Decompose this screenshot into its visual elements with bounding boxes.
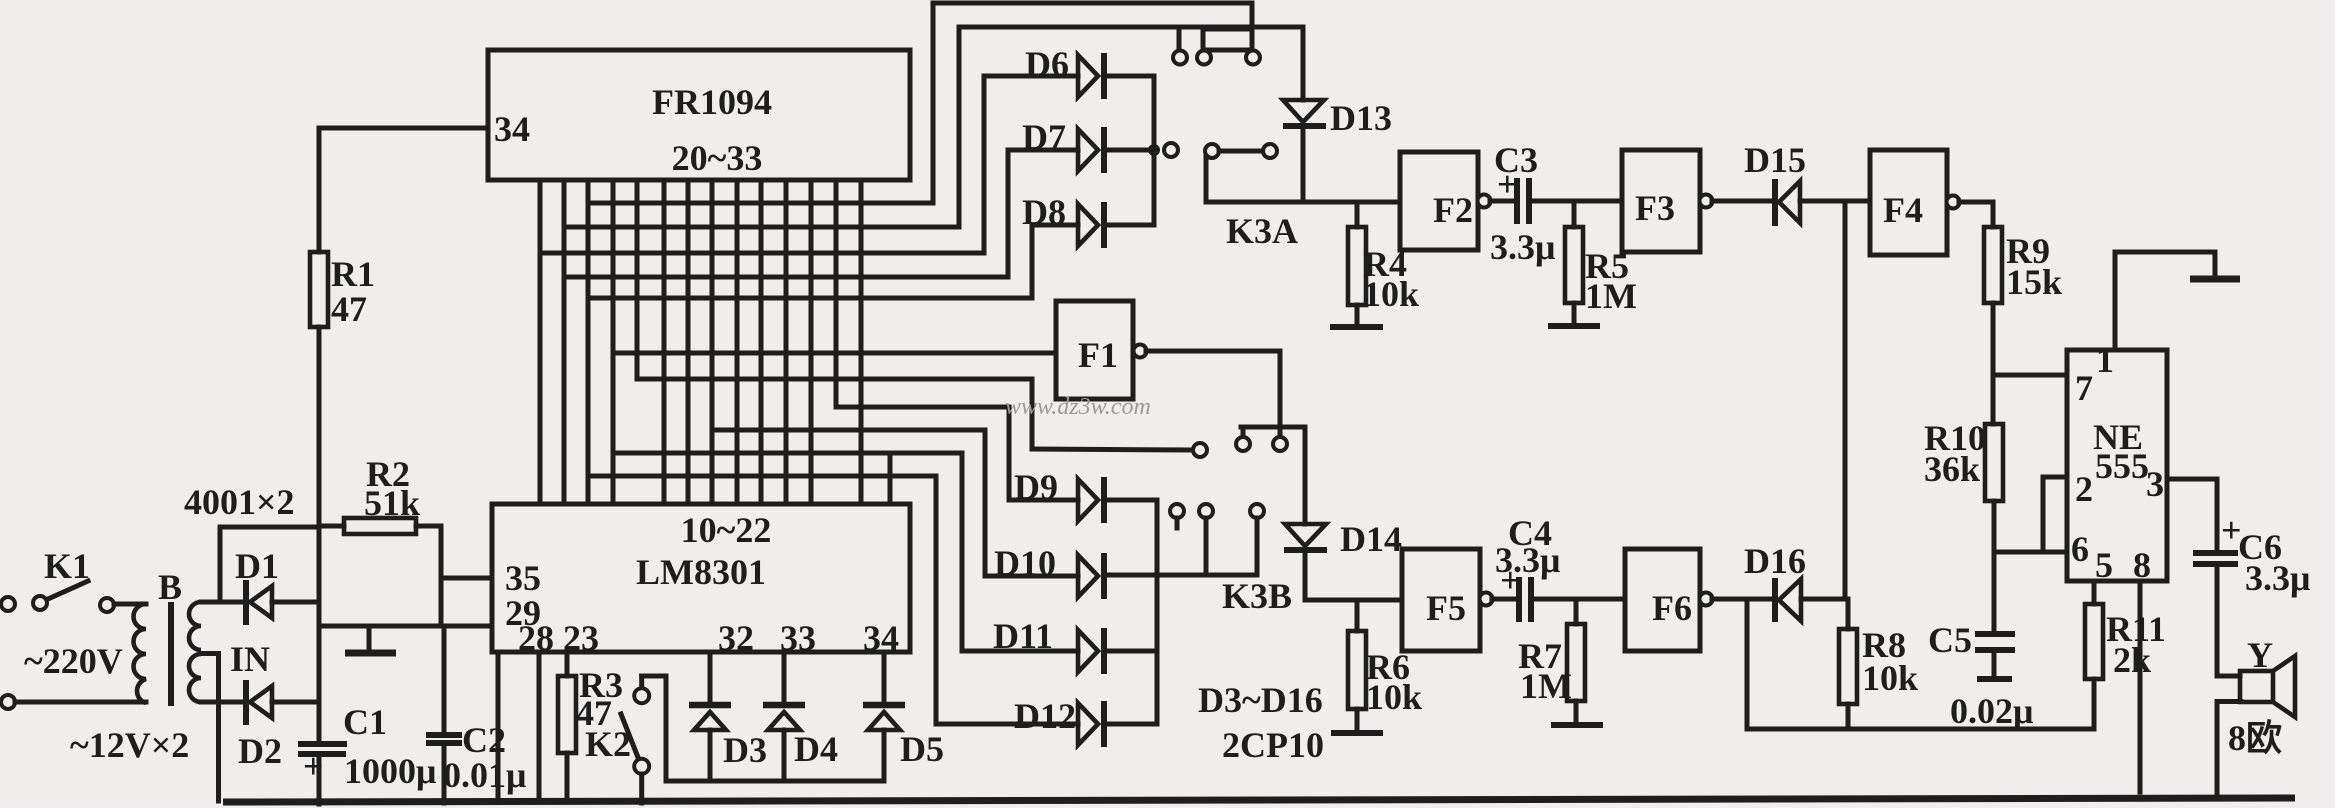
- wire bus row y353 to F1 input: [613, 351, 1056, 356]
- wire NE555 pin 1 up: [2115, 252, 2215, 350]
- svg-text:7: 7: [2075, 368, 2093, 408]
- wire bus column x540: [538, 180, 543, 504]
- svg-text:28: 28: [518, 618, 554, 658]
- capacitor C2: [426, 626, 526, 803]
- svg-text:3.3μ: 3.3μ: [2245, 558, 2310, 598]
- ground at pin 1 wire: [2190, 276, 2240, 283]
- svg-text:0.02μ: 0.02μ: [1950, 691, 2033, 731]
- svg-text:C3: C3: [1494, 140, 1538, 180]
- svg-text:F6: F6: [1652, 588, 1692, 628]
- wire bus column x564: [562, 180, 567, 504]
- wire bus row y227: [564, 225, 959, 230]
- diode D2: [238, 680, 319, 771]
- wire row y27 to D13: [959, 25, 1303, 30]
- ground at supply node: [345, 626, 396, 653]
- wire bottom row y729: [1747, 727, 2094, 732]
- wire secondary center tap IN: [201, 654, 219, 802]
- svg-text:D14: D14: [1340, 519, 1402, 559]
- wire C6 to speaker: [2217, 566, 2240, 676]
- diode D4: [763, 652, 838, 781]
- wire bus column x588: [586, 180, 591, 504]
- svg-text:20~33: 20~33: [672, 138, 763, 178]
- wire to LM8301 pin 29: [321, 624, 492, 629]
- svg-text:F3: F3: [1635, 188, 1675, 228]
- wire bus row y253: [540, 251, 984, 256]
- wire secondary top tap to D1: [201, 600, 246, 605]
- svg-text:D8: D8: [1022, 192, 1066, 232]
- svg-text:34: 34: [863, 618, 899, 658]
- wire K1 to transformer primary top: [114, 602, 146, 607]
- relay contact K3A upper: [1173, 3, 1303, 251]
- wire C3 to F3: [1529, 199, 1622, 204]
- wire R9 down to pin7 node: [1991, 303, 1996, 424]
- svg-text:1M: 1M: [1585, 276, 1637, 316]
- relay contact K3B upper bridge: [1236, 427, 1305, 451]
- wire K2 loop to diode rail: [642, 676, 666, 781]
- svg-text:D1: D1: [235, 546, 279, 586]
- svg-text:D3: D3: [723, 730, 767, 770]
- gate F2: [1400, 152, 1491, 250]
- wire secondary bottom tap to D2: [201, 700, 246, 705]
- svg-text:8欧: 8欧: [2228, 718, 2282, 758]
- svg-text:~12V×2: ~12V×2: [70, 725, 189, 765]
- svg-text:2k: 2k: [2113, 640, 2151, 680]
- IC U2 LM8301: [492, 504, 910, 658]
- svg-text:15k: 15k: [2006, 262, 2062, 302]
- node K3B pole contact: [1193, 443, 1207, 457]
- capacitor C4: [1495, 513, 1560, 622]
- transformer B secondary winding upper half: [189, 602, 201, 650]
- wire bus column x688: [686, 180, 691, 504]
- ground at C5: [1977, 676, 2012, 682]
- wire riser x1032 to D8: [1030, 225, 1035, 298]
- wire D10 anode row: [985, 574, 1078, 579]
- wire riser x959 up: [957, 27, 962, 227]
- gate F4: [1870, 150, 1960, 255]
- svg-text:D13: D13: [1330, 98, 1392, 138]
- diode D10: [994, 543, 1104, 599]
- diode D12: [1014, 696, 1157, 747]
- transformer B core: [168, 602, 174, 706]
- svg-text:10k: 10k: [1366, 677, 1422, 717]
- wire dropper x1001 to D9: [1007, 407, 1012, 500]
- junction dot at D7 cathode: [1148, 144, 1160, 156]
- wire bus column x613: [611, 180, 616, 504]
- wire bus row y203: [591, 201, 933, 206]
- svg-text:D2: D2: [238, 731, 282, 771]
- wire D16 node down: [1745, 599, 1750, 729]
- svg-text:0.01μ: 0.01μ: [443, 755, 526, 795]
- wire speaker bottom to rail: [2217, 702, 2241, 799]
- svg-text:10k: 10k: [1363, 274, 1419, 314]
- wire junction drop x1845: [1843, 201, 1848, 599]
- svg-text:4001×2: 4001×2: [184, 482, 295, 522]
- wire node to F2 input: [1206, 200, 1400, 205]
- wire D14 node to F5 input: [1305, 598, 1402, 603]
- capacitor C5: [1928, 620, 2033, 731]
- svg-text:LM8301: LM8301: [636, 552, 766, 592]
- transformer B primary winding: [133, 604, 146, 703]
- gate F6: [1625, 549, 1713, 651]
- ground at R5: [1548, 323, 1600, 329]
- wire F3 out to D15: [1712, 199, 1775, 204]
- diode D8: [1022, 192, 1154, 248]
- wire top row y3 to K3A: [933, 1, 1252, 6]
- svg-text:6: 6: [2071, 529, 2089, 569]
- wire dropper x936 to D11 D12: [960, 453, 965, 651]
- resistor R8: [1839, 599, 1918, 729]
- wire riser x1008 to D7: [1006, 150, 1011, 277]
- IC U3 NE555: [2067, 340, 2167, 585]
- svg-text:K3A: K3A: [1226, 211, 1298, 251]
- svg-text:K1: K1: [44, 546, 90, 586]
- svg-text:www.dz3w.com: www.dz3w.com: [1005, 394, 1151, 420]
- wire riser x984 to D6: [982, 76, 987, 253]
- svg-text:D6: D6: [1025, 44, 1069, 84]
- svg-text:K2: K2: [585, 724, 631, 764]
- resistor R7: [1518, 599, 1585, 722]
- wire bottom rail: [223, 798, 2295, 802]
- wire C4 to F6: [1531, 597, 1625, 602]
- svg-text:D12: D12: [1014, 696, 1076, 736]
- svg-text:F1: F1: [1078, 335, 1118, 375]
- svg-text:3: 3: [2146, 464, 2164, 504]
- wire row y449 to K3B pole: [1032, 449, 1192, 450]
- relay contact K3B lower: [1170, 504, 1292, 616]
- ground at R7: [1551, 722, 1603, 728]
- switch K1: [1, 546, 114, 612]
- wire K1 lower terminal to transformer primary bottom: [1, 695, 146, 709]
- wire D6-D8 cathode bus: [1152, 76, 1157, 225]
- node K3A pole contact: [1164, 143, 1178, 157]
- wire bus column x861: [859, 180, 864, 504]
- svg-text:3.3μ: 3.3μ: [1490, 227, 1555, 267]
- svg-text:Y: Y: [2247, 635, 2273, 675]
- wire bus column x836: [834, 180, 839, 407]
- wire R2 right vertical x441: [439, 526, 444, 626]
- svg-text:2CP10: 2CP10: [1222, 725, 1324, 765]
- wire bus column x737: [735, 180, 740, 504]
- svg-text:47: 47: [331, 289, 367, 329]
- gate F5: [1402, 549, 1493, 651]
- wire bus row y453: [613, 451, 962, 456]
- diode D6: [1025, 44, 1154, 99]
- svg-text:2: 2: [2075, 469, 2093, 509]
- svg-text:1: 1: [2096, 340, 2114, 380]
- wire D9-D12 cathode bus: [1155, 500, 1160, 724]
- wire riser x933 up: [931, 3, 936, 203]
- wire FR1094 pin 34 to R1: [319, 126, 488, 131]
- diode D9: [1014, 467, 1157, 523]
- svg-text:D9: D9: [1014, 467, 1058, 507]
- wire pin2 loop: [2043, 477, 2067, 552]
- wire dropper x959 to D10: [983, 430, 988, 576]
- svg-text:D3~D16: D3~D16: [1198, 680, 1323, 720]
- wire C1 to bottom rail: [317, 756, 322, 804]
- wire bus column x761: [759, 180, 764, 504]
- wire D8 anode row: [1032, 223, 1078, 228]
- wire to NE555 pin 6: [1994, 550, 2067, 555]
- svg-text:C5: C5: [1928, 620, 1972, 660]
- wire to NE555 pin 7: [1993, 373, 2067, 378]
- wire F2 out to C3: [1490, 199, 1517, 204]
- svg-text:1000μ: 1000μ: [344, 751, 436, 791]
- capacitor C3: [1490, 140, 1555, 267]
- wire to LM8301 pin 35: [441, 576, 492, 581]
- diode D1: [235, 546, 319, 625]
- resistor R11: [2085, 581, 2166, 729]
- wire bus column x637: [635, 180, 640, 379]
- svg-text:D11: D11: [993, 616, 1053, 656]
- speaker Y: [2228, 635, 2295, 758]
- resistor R5: [1565, 201, 1637, 323]
- wire D12 anode row: [936, 722, 1078, 727]
- svg-text:F4: F4: [1883, 190, 1923, 230]
- svg-text:~220V: ~220V: [24, 641, 123, 681]
- svg-text:D7: D7: [1022, 117, 1066, 157]
- wire bus row y379: [637, 377, 1032, 382]
- diode D11: [993, 616, 1157, 674]
- svg-text:R1: R1: [331, 254, 375, 294]
- svg-text:555: 555: [2095, 446, 2149, 486]
- svg-text:F2: F2: [1433, 190, 1473, 230]
- resistor R10: [1924, 418, 2003, 501]
- wire D10 cathode to K3B bridge row: [1104, 573, 1257, 578]
- resistor R4: [1348, 202, 1419, 324]
- svg-text:FR1094: FR1094: [652, 82, 772, 122]
- wire bus column x712: [710, 180, 715, 504]
- wire left vertical x220 top: [218, 527, 223, 602]
- wire F4 out to R9: [1959, 202, 1993, 227]
- IC U1 FR1094: [488, 50, 910, 180]
- wire F1 out to K3B bridge: [1146, 351, 1280, 427]
- relay contact K3A lower: [1205, 144, 1277, 202]
- wire bus column x664: [662, 180, 667, 504]
- ground at R6: [1331, 730, 1383, 736]
- wire bus column x811: [809, 180, 814, 504]
- svg-text:3.3μ: 3.3μ: [1495, 540, 1560, 580]
- ground at R4: [1330, 324, 1383, 330]
- svg-text:10k: 10k: [1862, 658, 1918, 698]
- svg-text:D15: D15: [1744, 140, 1806, 180]
- wire D6 anode row: [984, 74, 1078, 79]
- svg-text:F5: F5: [1426, 588, 1466, 628]
- svg-text:51k: 51k: [364, 483, 420, 523]
- svg-text:36k: 36k: [1924, 449, 1980, 489]
- resistor R9: [1984, 227, 2062, 303]
- svg-text:K3B: K3B: [1222, 576, 1292, 616]
- wire bus row y430: [712, 428, 985, 433]
- resistor R3: [558, 652, 623, 802]
- svg-text:C1: C1: [343, 702, 387, 742]
- wire NE555 pin 8 down: [2138, 581, 2143, 792]
- wire main vertical rail x319: [317, 327, 322, 741]
- svg-text:D10: D10: [994, 543, 1056, 583]
- resistor R1: [310, 128, 375, 329]
- svg-text:B: B: [158, 567, 182, 607]
- resistor R2: [319, 454, 441, 534]
- svg-text:1M: 1M: [1520, 666, 1572, 706]
- wire NE555 pin 3 to C6: [2167, 479, 2217, 549]
- diode D15: [1744, 140, 1870, 226]
- wire diode bottom rail y781: [666, 779, 884, 784]
- capacitor C1: [298, 702, 436, 791]
- diode D16: [1744, 541, 1845, 622]
- svg-text:35: 35: [505, 558, 541, 598]
- wire bus row y298: [588, 296, 1032, 301]
- diode D7: [1022, 117, 1154, 173]
- svg-text:D16: D16: [1744, 541, 1806, 581]
- svg-text:D4: D4: [794, 729, 838, 769]
- wire pin 28 down x539: [537, 652, 542, 802]
- switch K2: [585, 676, 649, 803]
- diode D13: [1283, 27, 1392, 202]
- wire bus row y476: [588, 474, 936, 479]
- wire bus row y407: [836, 405, 1009, 410]
- svg-text:32: 32: [718, 618, 754, 658]
- wire bus row y277: [564, 275, 1008, 280]
- svg-text:D5: D5: [900, 729, 944, 769]
- wire R10 to C5 node: [1992, 501, 1997, 633]
- diode D14: [1284, 427, 1402, 600]
- transformer B secondary winding lower half: [189, 654, 201, 702]
- svg-text:10~22: 10~22: [681, 510, 772, 550]
- diode D3: [689, 652, 767, 781]
- svg-text:5: 5: [2095, 545, 2113, 585]
- gate F1: [1056, 301, 1147, 399]
- resistor R6: [1348, 600, 1422, 731]
- wire top horizontal y527: [220, 525, 319, 530]
- svg-text:34: 34: [494, 109, 530, 149]
- wire F5 out to C4: [1492, 597, 1519, 602]
- wire LM8301 ground pin x498: [496, 652, 501, 802]
- wire dropper x936 to D12: [934, 476, 939, 724]
- wire D7 anode row: [1008, 148, 1078, 153]
- wire D11 anode row: [962, 649, 1078, 654]
- diode D5: [863, 652, 944, 781]
- svg-text:IN: IN: [230, 639, 270, 679]
- wire dropper x1032 to K3B: [1030, 379, 1035, 449]
- wire D9 anode row: [1009, 498, 1078, 503]
- wire bus column x786: [784, 180, 789, 504]
- wire F6 out to D16: [1712, 597, 1775, 602]
- capacitor C6: [2193, 510, 2310, 598]
- gate F3: [1622, 150, 1713, 252]
- wire column x890 into LM8301: [888, 453, 893, 504]
